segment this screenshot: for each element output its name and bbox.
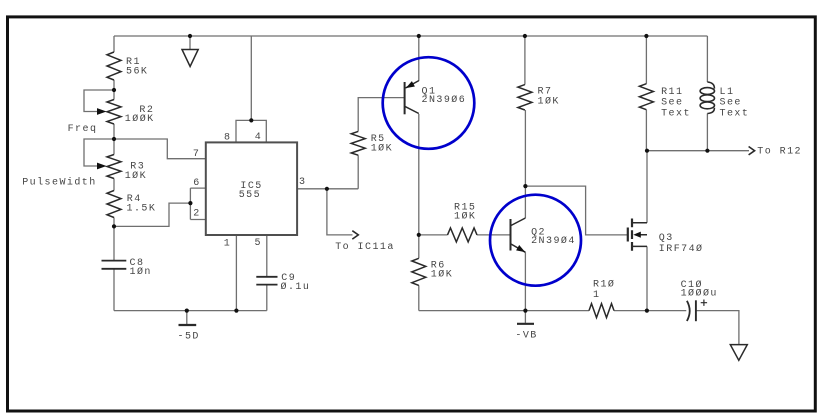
wire bottom rail left (114, 310, 267, 312)
svg-text:555: 555 (239, 190, 261, 201)
wire R3 wiper loop (84, 139, 114, 166)
pot arrow R2 wiper (97, 108, 107, 115)
junction dot R4-C8 (112, 224, 116, 228)
wire pin5 / C9 leads (266, 235, 268, 311)
wire pin1 lead (235, 235, 237, 311)
wire node pin7 run (114, 139, 206, 159)
wire Q3 source lead (646, 246, 648, 310)
svg-text:Q3: Q3 (659, 233, 674, 244)
highlight circle Q2 (490, 195, 581, 286)
wire top rail (114, 35, 707, 37)
junction dot Q3 drain (645, 149, 649, 153)
svg-text:2N39Ø6: 2N39Ø6 (422, 94, 467, 106)
capacitor C10 plus sign (701, 300, 707, 306)
junction dot pin3 (325, 187, 329, 191)
arrow to R12 (749, 147, 755, 155)
wire L1 leads (706, 36, 708, 151)
svg-text:Ø.1u: Ø.1u (281, 281, 311, 293)
junction dot 555 power (249, 118, 253, 122)
svg-text:5: 5 (255, 238, 262, 249)
wire pin 2-6 bracket (190, 188, 205, 219)
svg-text:See: See (661, 98, 683, 109)
op-amp 555 box IC5 (206, 142, 297, 235)
junction dot R15 node (417, 233, 421, 237)
transistor Q3 channel segments (631, 219, 633, 251)
wire Q2 emitter lead (524, 252, 526, 310)
svg-text:PulseWidth: PulseWidth (22, 177, 97, 189)
svg-text:8: 8 (224, 132, 231, 143)
arrow to IC11a (352, 231, 358, 239)
junction dot pin1 rail (234, 309, 238, 313)
transistor Q3 gate bar (627, 228, 629, 242)
wire R5 bottom lead (357, 155, 359, 189)
pot arrow R3 wiper (97, 163, 107, 170)
inductor L1 coil (700, 88, 714, 95)
transistor Q2 body (510, 219, 512, 251)
resistor R3 (107, 155, 121, 179)
wire node to R12 (647, 150, 749, 152)
resistor R6 (412, 258, 426, 285)
svg-text:See: See (720, 98, 742, 109)
svg-text:2: 2 (193, 208, 200, 219)
wire pin3 out (297, 188, 358, 190)
wire -VB stub (524, 311, 526, 323)
svg-text:1ØØK: 1ØØK (125, 113, 155, 125)
wire R2 wiper loop (84, 90, 114, 112)
resistor R15 (448, 228, 478, 242)
wire R1 top lead (113, 36, 115, 52)
junction dot L1 bottom (705, 149, 709, 153)
wire Q1 collector / R6 leads (418, 114, 420, 311)
svg-text:1ØK: 1ØK (454, 210, 476, 222)
svg-text:3: 3 (299, 177, 306, 188)
junction dot R11 rail (644, 34, 648, 38)
svg-text:1: 1 (224, 239, 231, 250)
svg-text:1: 1 (593, 290, 600, 301)
junction dot R7 rail (523, 34, 527, 38)
svg-text:Freq: Freq (68, 124, 98, 135)
svg-text:1.5K: 1.5K (127, 204, 157, 215)
wire to IC11a stub (327, 189, 353, 235)
svg-text:-5D: -5D (178, 331, 200, 342)
resistor R1 (107, 52, 121, 80)
wire top ground stub (189, 36, 191, 50)
resistor R2 (107, 100, 121, 125)
svg-text:6: 6 (193, 178, 200, 189)
junction dot pins 2-6 (188, 201, 192, 205)
svg-text:7: 7 (193, 149, 200, 160)
resistor R4 (107, 191, 121, 218)
wire Q2 collector lead (524, 110, 526, 218)
svg-text:1ØK: 1ØK (538, 96, 560, 108)
junction dot -5D (185, 309, 189, 313)
svg-text:1ØK: 1ØK (431, 269, 453, 281)
ground right triangle (730, 345, 747, 361)
wire R4 bottom lead (113, 218, 115, 227)
svg-text:IRF74Ø: IRF74Ø (659, 243, 704, 255)
svg-text:To IC11a: To IC11a (335, 242, 395, 253)
junction dot top ground (188, 34, 192, 38)
resistor R5 (351, 131, 365, 155)
svg-text:To R12: To R12 (757, 146, 802, 157)
ground bar -VB (517, 323, 534, 325)
transistor Q3 stubs (632, 223, 647, 247)
wire R3 leads (113, 139, 115, 191)
svg-text:1ØK: 1ØK (125, 170, 147, 182)
transistor Q2 emitter arrow (516, 245, 525, 252)
svg-text:L1: L1 (720, 87, 735, 98)
junction dot R1-R2 (112, 88, 116, 92)
capacitor C8 (102, 261, 127, 269)
svg-text:1Øn: 1Øn (130, 266, 152, 278)
svg-text:1ØK: 1ØK (371, 142, 393, 154)
capacitor C9 (256, 277, 277, 285)
svg-text:4: 4 (255, 132, 262, 143)
svg-text:R11: R11 (661, 87, 683, 98)
wire R11 leads (645, 36, 647, 151)
wire 555 power pins 8,4 (236, 36, 266, 142)
wire R15 leads (419, 234, 510, 236)
resistor R7 (518, 85, 532, 110)
transistor Q3 body arrow (633, 232, 641, 238)
svg-text:Text: Text (661, 109, 691, 120)
svg-text:Text: Text (720, 109, 750, 120)
highlight circle Q1 (383, 57, 475, 149)
wire R1 bottom lead (113, 80, 115, 90)
ground bar -5D (179, 324, 197, 326)
resistor R10 (589, 304, 614, 318)
wire -5D stub (186, 311, 188, 325)
wire R5 top lead / Q1 base (358, 98, 404, 132)
svg-text:-VB: -VB (515, 331, 537, 342)
junction dot C10 (645, 309, 649, 313)
junction dot Q2 emitter rail (523, 309, 527, 313)
transistor Q1 emitter arrow (406, 81, 415, 88)
junction dot R2-R3 (112, 137, 116, 141)
junction dot Q2 collector (523, 184, 527, 188)
wire R4 junction to pins 2,6 (114, 203, 190, 226)
svg-text:1ØØØu: 1ØØØu (681, 288, 718, 300)
wire R7 top lead (524, 36, 526, 85)
svg-text:56K: 56K (126, 66, 148, 77)
capacitor C10 plates (687, 301, 690, 321)
wire Q1 emitter lead (418, 36, 420, 81)
svg-text:R1Ø: R1Ø (593, 279, 615, 291)
wire bottom rail right (419, 311, 739, 345)
svg-text:2N39Ø4: 2N39Ø4 (531, 235, 576, 247)
wire C8 leads (113, 226, 115, 310)
junction dot Q1 emitter rail (417, 34, 421, 38)
ground top triangle (182, 50, 198, 67)
resistor R11 (639, 84, 653, 110)
wire Q2 collector to Q3 gate (525, 186, 627, 235)
wire R2 leads (113, 90, 115, 139)
wire Q3 drain lead (646, 151, 648, 223)
transistor Q1 body (404, 82, 406, 114)
